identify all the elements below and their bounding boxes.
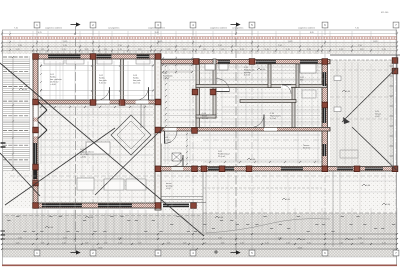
grid bubble top 4 — [190, 22, 196, 28]
column at 35.5,183 — [33, 180, 39, 186]
right edge dim chain marks — [390, 65, 394, 67]
window right wall vertical W8b — [323, 144, 327, 156]
wing dim chain vertical — [12, 57, 14, 210]
column at 194.5,130.5 — [192, 128, 198, 134]
stipple band top dimension strip — [2, 42, 397, 55]
svg-text:1,25: 1,25 — [307, 242, 311, 244]
svg-text:1,25: 1,25 — [85, 49, 89, 51]
hall floor — [161, 64, 322, 166]
dimension chain y50.5 — [2, 50, 397, 52]
wall interior bath lower — [240, 100, 296, 103]
window right wall vertical W8 — [323, 108, 327, 123]
terrace inner edge v — [336, 60, 338, 171]
duct vertical pair — [140, 104, 142, 128]
column at 252,61.5 — [249, 59, 255, 65]
svg-text:1,25: 1,25 — [138, 49, 142, 51]
room interior light verticals — [49, 61, 51, 100]
svg-text:7,425: 7,425 — [288, 41, 293, 43]
door opening bath — [217, 88, 230, 92]
wall exterior top-left — [33, 54, 161, 59]
column at 395,71 — [392, 68, 398, 74]
grid bubble top 2 — [90, 22, 96, 28]
column at 158,168.8 — [155, 166, 161, 172]
eave line top right — [330, 54, 400, 56]
corridor witness v — [175, 56, 177, 74]
terrace drain v — [332, 171, 334, 247]
svg-text:2,50: 2,50 — [118, 45, 122, 47]
svg-text:7,425: 7,425 — [373, 41, 378, 43]
roof hip right lower — [352, 127, 397, 170]
terrace right edge inner — [392, 60, 394, 171]
svg-text:21,6 m2: 21,6 m2 — [218, 156, 226, 158]
column at 35.5,102 — [33, 99, 39, 105]
terrace left edge v1 — [202, 171, 204, 233]
dim chain y33.5 — [2, 33, 397, 35]
wall exterior right — [322, 60, 328, 172]
left border line — [2, 30, 4, 266]
witness verticals through walkway band — [41, 210, 43, 244]
window terrace rail W14 — [365, 167, 383, 170]
svg-text:32,6 m2: 32,6 m2 — [303, 148, 311, 150]
wall interior stub y115 — [196, 115, 216, 118]
dim line living top — [40, 114, 153, 116]
svg-text:1,25: 1,25 — [183, 49, 187, 51]
wall exterior bottom-left — [33, 203, 161, 208]
terrace table — [340, 150, 358, 158]
bottom red base line — [2, 264, 397, 266]
wall interior bedroom2 — [121, 59, 124, 100]
door opening wc — [281, 85, 291, 88]
svg-text:1,25: 1,25 — [240, 49, 244, 51]
red insulation band — [2, 36, 397, 38]
window right wall vertical W7 — [323, 72, 327, 86]
svg-text:2,50: 2,50 — [278, 45, 282, 47]
svg-text:vizszigeteles: vizszigeteles — [108, 27, 119, 30]
left margin annotation marks — [1, 230, 6, 232]
svg-text:1,25: 1,25 — [203, 242, 207, 244]
svg-text:+-0,00: +-0,00 — [80, 157, 87, 159]
column at 35.5,205.5 — [33, 203, 39, 209]
column at 213,92 — [210, 89, 216, 95]
wall interior living/rooms — [33, 100, 161, 104]
column at 194.5,168.8 — [192, 166, 198, 172]
svg-text:1,25: 1,25 — [307, 49, 311, 51]
slope apex marker right terrace — [343, 117, 350, 124]
door arc terrace — [172, 155, 184, 167]
svg-text:vizszigeteles: vizszigeteles — [232, 27, 243, 30]
comb witness ticks above top wall — [33, 51, 35, 55]
column at 204,168.8 — [201, 166, 207, 172]
grid bubble bottom 7 — [393, 250, 399, 256]
roof valley diagonal left — [0, 63, 204, 236]
wall bottom-right terrace edge — [155, 167, 397, 172]
grid bubble bottom 6 — [322, 250, 328, 256]
svg-text:szigeteles vedelem: szigeteles vedelem — [45, 27, 62, 30]
window top W5 — [256, 60, 276, 63]
witness verticals mid (living to bottom) — [44, 104, 46, 203]
svg-text:1,25: 1,25 — [85, 242, 89, 244]
grid bubble top 3 — [155, 22, 161, 28]
crosshatch bottom walkway band — [2, 213, 397, 257]
door opening room2 — [97, 100, 110, 103]
svg-text:1,25: 1,25 — [183, 242, 187, 244]
section arrow B top — [231, 24, 237, 26]
svg-text:2,50: 2,50 — [358, 45, 362, 47]
grid axis 4 — [192, 28, 194, 250]
svg-text:7,5 m2: 7,5 m2 — [163, 78, 170, 80]
corridor dim rows — [162, 58, 193, 60]
window left wall small — [33, 169, 37, 179]
entry door chevron 2 — [38, 122, 47, 131]
furniture table2 — [126, 179, 146, 190]
window terrace rail W13 — [337, 167, 353, 170]
svg-text:2,50: 2,50 — [218, 237, 222, 239]
column at 35.5,130 — [33, 127, 39, 133]
grid bubble bottom 3 — [155, 250, 161, 256]
terrace drain v2 — [339, 171, 341, 247]
svg-text:6,4 m2: 6,4 m2 — [244, 75, 251, 77]
terrace witness x352 — [351, 62, 353, 168]
svg-text:11,0 m2: 11,0 m2 — [133, 83, 141, 85]
window top W6 — [300, 60, 318, 63]
scattered annotation dashes bottom band — [7, 220, 10, 222]
tick chain x187 kitchen — [186, 133, 188, 135]
overhang dashed left — [5, 215, 200, 217]
roof hip diagonal left up A — [5, 128, 115, 205]
column at 324.8,105 — [322, 102, 328, 108]
bath tub — [300, 64, 316, 73]
door arc kitchen top — [165, 131, 178, 144]
column at 395,168.8 — [392, 166, 398, 172]
window top W4 — [218, 60, 230, 63]
bath wc — [219, 64, 228, 70]
grid bubble top 6 — [322, 22, 328, 28]
stipple lower terrace band — [2, 171, 397, 213]
terrace dashed horizontals right — [330, 69, 392, 71]
extra witness verticals bottom band — [7, 214, 9, 246]
roof hip diagonal left up B — [95, 128, 163, 195]
svg-text:M 1:100: M 1:100 — [381, 12, 389, 14]
door arc room3 — [136, 87, 149, 100]
svg-text:9,10 m2: 9,10 m2 — [99, 83, 107, 85]
boxed label 42a — [334, 76, 341, 81]
window terrace wall W12 — [281, 167, 303, 170]
svg-text:2,50: 2,50 — [278, 237, 282, 239]
section arrow A bottom — [71, 252, 77, 254]
svg-text:szigeteles vedelem: szigeteles vedelem — [210, 27, 227, 30]
door arc hall — [251, 115, 264, 128]
column at 158,205.5 — [155, 203, 161, 209]
svg-text:1,25: 1,25 — [16, 49, 20, 51]
grid bubble bottom 2 — [90, 250, 96, 256]
svg-text:1,25: 1,25 — [360, 242, 364, 244]
window top W3 — [137, 55, 150, 59]
svg-text:1,25: 1,25 — [221, 49, 225, 51]
column at 122,102.5 — [119, 100, 125, 106]
svg-text:7,425: 7,425 — [63, 41, 68, 43]
column at 158,56.5 — [155, 54, 161, 60]
svg-text:24,35: 24,35 — [298, 247, 303, 249]
column at 357,168.8 — [354, 166, 360, 172]
window terrace wall W11 — [208, 167, 234, 170]
terrace contour arc — [206, 219, 330, 233]
wall interior vertical x292 — [292, 88, 295, 128]
plus mark bottom — [214, 251, 218, 253]
section line A-A — [75, 26, 77, 252]
wall exterior top-right — [155, 60, 330, 64]
roof hip left wing lower — [0, 153, 40, 196]
wall interior vertical x213 — [213, 59, 216, 118]
svg-text:WC: WC — [300, 80, 304, 82]
door arc wc — [282, 85, 291, 94]
door opening terrace — [172, 167, 184, 170]
door opening room3 — [136, 100, 149, 103]
section arrow A top — [71, 24, 77, 26]
grid bubble bottom 1 — [34, 250, 40, 256]
section arrow B bottom — [231, 252, 237, 254]
svg-text:1,25: 1,25 — [240, 242, 244, 244]
porch step2 — [161, 199, 203, 201]
svg-text:1,25: 1,25 — [265, 242, 269, 244]
door opening left wall 1 — [34, 103, 38, 118]
window bottom W10 — [98, 204, 132, 208]
svg-text:2,50: 2,50 — [358, 237, 362, 239]
svg-text:1,25: 1,25 — [16, 242, 20, 244]
svg-text:2,50: 2,50 — [63, 237, 67, 239]
column at 195,92 — [192, 89, 198, 95]
column at 324.8,61.5 — [322, 59, 328, 65]
svg-text:1,25: 1,25 — [41, 242, 45, 244]
wall interior bedroom1 — [93, 59, 96, 100]
svg-text:1,25: 1,25 — [339, 49, 343, 51]
living room floor — [38, 104, 155, 203]
extra witness verticals top — [7, 40, 9, 54]
grid bubble top 7 — [393, 22, 399, 28]
svg-text:1,25: 1,25 — [118, 49, 122, 51]
column at 249,168.8 — [246, 166, 252, 172]
right border line — [396, 30, 398, 266]
kitchen island — [86, 142, 110, 154]
skylight diamond (rotated square) — [111, 115, 151, 155]
door opening kitchen — [161, 132, 164, 144]
svg-text:1,25: 1,25 — [360, 49, 364, 51]
svg-text:11,2 m2: 11,2 m2 — [164, 142, 172, 144]
entry door chevron 1 — [38, 102, 47, 111]
furniture table — [104, 179, 124, 190]
grid axis 7 — [395, 28, 397, 250]
door opening left wall 2 — [34, 122, 38, 137]
wall interior bath horizontal — [196, 85, 327, 88]
grid bubble bottom 4 — [190, 250, 196, 256]
svg-text:1,25: 1,25 — [286, 49, 290, 51]
roof hip right upper — [342, 68, 397, 122]
shower — [302, 90, 316, 98]
grid axis 6 — [324, 28, 326, 250]
wall interior vertical x268 — [268, 64, 271, 88]
wall interior hall horizontal — [161, 128, 330, 132]
svg-text:1,25: 1,25 — [41, 49, 45, 51]
left margin chain top band — [9, 31, 11, 54]
svg-text:1,25: 1,25 — [286, 242, 290, 244]
interior verticals right rooms — [204, 64, 206, 128]
svg-text:4,25: 4,25 — [38, 32, 42, 34]
svg-text:1,25: 1,25 — [221, 242, 225, 244]
closet lines along top wall — [44, 60, 64, 65]
column at 93,56.5 — [90, 54, 96, 60]
dimension chain y42.5 — [2, 42, 397, 44]
column at 324.8,168.8 — [322, 166, 328, 172]
column at 193.5,205.5 — [191, 203, 197, 209]
border line top — [2, 29, 397, 31]
svg-text:1,25: 1,25 — [138, 242, 142, 244]
bath sink — [205, 64, 215, 70]
grid axis 2 — [92, 28, 94, 250]
window left wall vertical french door — [33, 143, 37, 165]
svg-text:8,85: 8,85 — [310, 32, 314, 34]
boxed label 42b — [334, 107, 341, 112]
svg-text:1,25: 1,25 — [104, 242, 108, 244]
svg-text:5,2 m2: 5,2 m2 — [270, 118, 277, 120]
bottom chains — [2, 233, 397, 235]
stipple porch strip x161-203 — [161, 171, 203, 203]
column at 93,102.5 — [90, 100, 96, 106]
terrace dashed boundary — [203, 212, 397, 214]
bath area clutter horizontals — [200, 66, 325, 68]
svg-text:1,25: 1,25 — [203, 49, 207, 51]
door opening kitchen top — [165, 128, 177, 131]
wall center vertical — [155, 54, 161, 210]
section line B-B — [235, 26, 237, 252]
svg-text:1,25: 1,25 — [167, 242, 171, 244]
column at 158,102 — [155, 99, 161, 105]
grid bubble top 5 — [249, 22, 255, 28]
window bottom W9 — [42, 204, 82, 208]
tick chain x166 — [165, 65, 167, 67]
stipple right terrace — [330, 60, 393, 166]
dimension chain y46.5 — [2, 46, 397, 48]
svg-text:szigeteles vedelem: szigeteles vedelem — [298, 27, 315, 30]
grid axis 3 — [157, 28, 159, 250]
wall interior vertical x296 — [296, 64, 299, 88]
grid bubble top 1 — [34, 22, 40, 28]
column at 395,60.5 — [392, 58, 398, 64]
window top W1 — [48, 55, 81, 59]
grid axis 1 — [36, 28, 38, 250]
wing right edge — [29, 56, 31, 210]
door arc room2 — [97, 87, 110, 100]
shaft with X — [172, 153, 181, 161]
door arc bath — [217, 79, 230, 92]
column at 35.5,167 — [33, 164, 39, 170]
svg-text:24,35: 24,35 — [98, 247, 103, 249]
svg-text:+-0,00: +-0,00 — [50, 84, 57, 86]
window top W2 — [97, 55, 112, 59]
svg-text:7,425: 7,425 — [158, 41, 163, 43]
grid bubble bottom 5 — [249, 250, 255, 256]
furniture sofa — [77, 178, 94, 190]
interior dim lines upper rooms — [40, 65, 154, 67]
svg-text:1,25: 1,25 — [118, 242, 122, 244]
vertical chain ticks x41 — [40, 65, 42, 67]
svg-text:1,25: 1,25 — [104, 49, 108, 51]
svg-text:1,25: 1,25 — [339, 242, 343, 244]
svg-text:1,25: 1,25 — [265, 49, 269, 51]
window bottom porch — [163, 204, 189, 208]
column at 196,61.5 — [193, 59, 199, 65]
svg-text:2,50: 2,50 — [118, 237, 122, 239]
svg-text:8,2 m2: 8,2 m2 — [202, 118, 209, 120]
hatch left roof wing (layered eave lines) — [3, 56, 30, 58]
dim line living ticks — [40, 106, 153, 108]
door opening hall — [264, 128, 277, 131]
wall exterior left — [33, 54, 38, 208]
column at 222,168.8 — [219, 166, 225, 172]
column at 158,130 — [155, 127, 161, 133]
grid axis 5 — [251, 28, 253, 250]
porch step1 — [161, 196, 203, 198]
svg-text:1,25: 1,25 — [167, 49, 171, 51]
column at 35.5,56.5 — [33, 54, 39, 60]
svg-text:1,25: 1,25 — [62, 242, 66, 244]
svg-text:2,50: 2,50 — [63, 45, 67, 47]
wall interior vertical x196 — [196, 59, 200, 131]
